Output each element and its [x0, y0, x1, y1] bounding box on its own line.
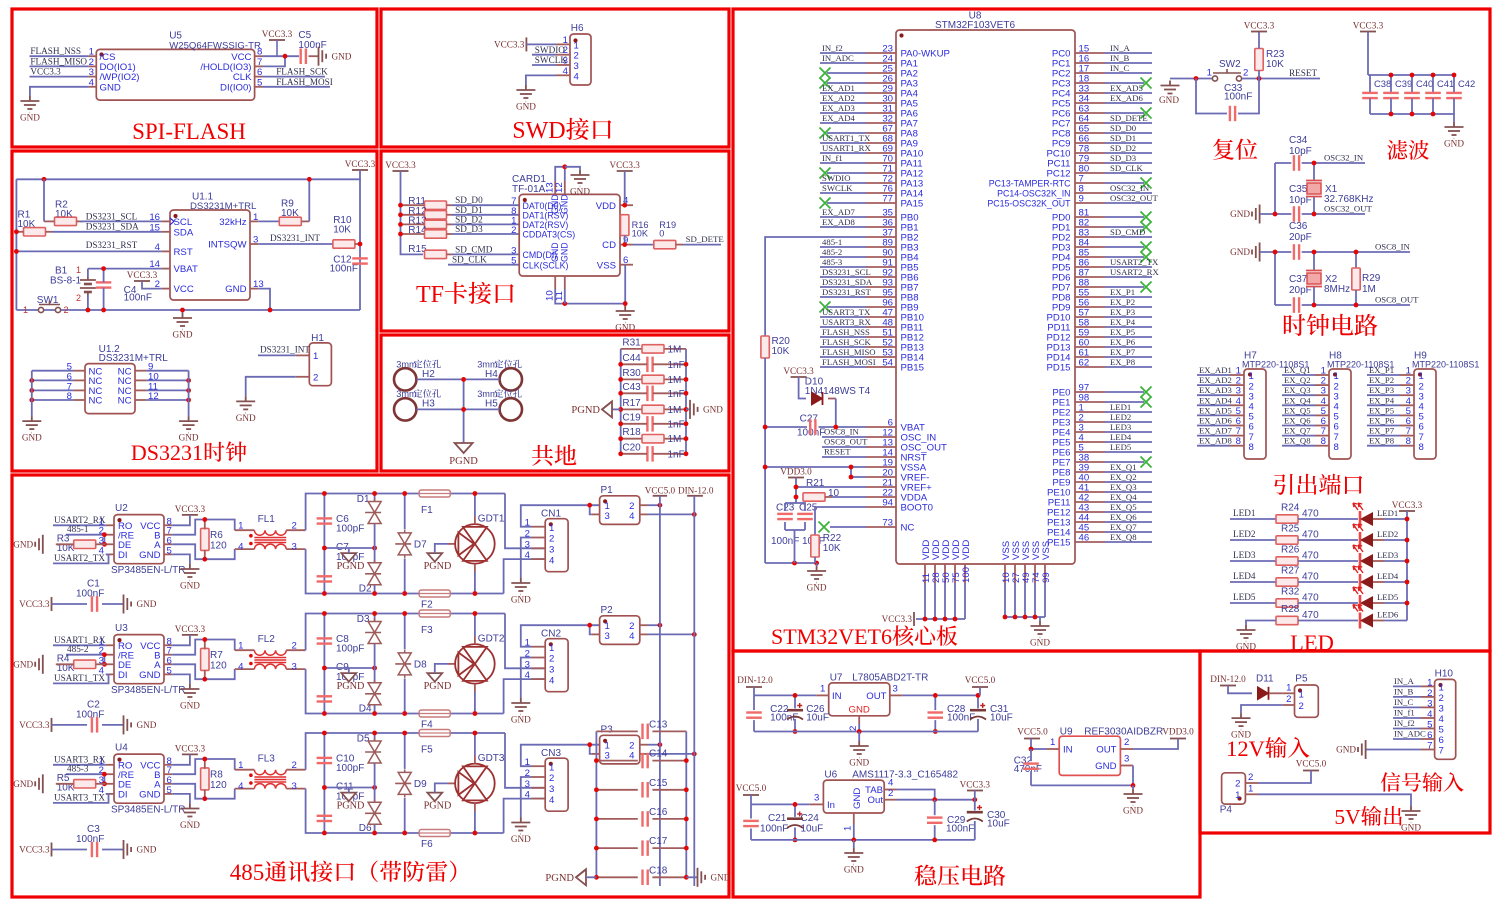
- wire net SWDIO: [820, 182, 866, 184]
- wire nc: [1105, 216, 1144, 218]
- svg-text:DAT2(RSV): DAT2(RSV): [523, 220, 569, 230]
- pin 81 U8 PD0: [1075, 216, 1105, 218]
- svg-text:EX_Q2: EX_Q2: [1110, 472, 1137, 482]
- svg-text:470: 470: [1302, 530, 1319, 541]
- pin 5 H9: [1400, 414, 1414, 416]
- wire LED to rail: [1373, 581, 1384, 583]
- svg-text:100pF: 100pF: [336, 524, 364, 535]
- svg-text:GND: GND: [13, 540, 33, 550]
- svg-text:SDA: SDA: [174, 227, 194, 238]
- pin 2 CN1: [532, 537, 546, 539]
- wire nc: [827, 132, 866, 134]
- wire net SD_D1: [1105, 142, 1152, 144]
- wire nc: [1105, 182, 1144, 184]
- node h join top: [461, 377, 466, 382]
- pin 71 U8 PA12: [866, 172, 896, 174]
- node ladder left C44: [618, 362, 623, 367]
- svg-text:H5: H5: [485, 398, 498, 409]
- pin 6 H7: [1230, 425, 1244, 427]
- svg-text:EX_AD1: EX_AD1: [822, 83, 855, 93]
- wire net IN_f1: [1393, 717, 1421, 719]
- diode D7 TVS mid: [404, 494, 406, 530]
- svg-text:GND: GND: [236, 413, 256, 423]
- pin 7 U4 B: [164, 773, 172, 775]
- svg-text:PGND: PGND: [424, 800, 452, 811]
- wire net EX_P7: [1367, 435, 1400, 437]
- svg-text:CN2: CN2: [541, 629, 561, 640]
- svg-text:GND: GND: [1401, 823, 1421, 833]
- svg-text:GND: GND: [180, 701, 200, 711]
- wire B to FL: [172, 640, 235, 655]
- pin 5 U1.2 NC left: [74, 370, 85, 372]
- svg-text:C13: C13: [649, 719, 668, 730]
- svg-text:RST: RST: [174, 247, 193, 258]
- wire net 485-3: [66, 773, 106, 775]
- node ladder left C19: [618, 421, 623, 426]
- wire 32kHz to R9: [258, 220, 279, 222]
- svg-text:P4: P4: [1220, 805, 1233, 816]
- svg-text:2: 2: [292, 760, 297, 771]
- pin 12 U8 OSC_IN: [866, 436, 896, 438]
- wire U7 input rail: [753, 687, 755, 695]
- svg-text:USART1_RX: USART1_RX: [822, 143, 871, 153]
- svg-text:GND: GND: [173, 330, 193, 340]
- wire net EX_Q3: [1282, 394, 1315, 396]
- pin 12 U1.2 NC right: [135, 399, 146, 401]
- pin 1 U5 /CS: [88, 55, 96, 57]
- pin 8 U5 VCC: [255, 55, 263, 57]
- svg-text:2: 2: [888, 788, 893, 799]
- wire net EX_P2: [1367, 384, 1400, 386]
- pin 3 U8 PE4: [1075, 431, 1105, 433]
- svg-text:PGND: PGND: [571, 405, 600, 416]
- capacitor C8: [323, 614, 325, 669]
- wire net EX_AD5: [1105, 92, 1152, 94]
- svg-text:4: 4: [89, 77, 95, 88]
- svg-text:4: 4: [525, 670, 531, 681]
- pin 3 H8: [1315, 394, 1329, 396]
- wire net IN_ADC: [1393, 738, 1421, 740]
- pin 6 U4 A: [164, 783, 172, 785]
- wire net EX_P8: [1105, 366, 1152, 368]
- svg-text:1nF: 1nF: [668, 449, 685, 460]
- svg-text:5: 5: [1427, 720, 1432, 731]
- svg-text:D8: D8: [414, 660, 427, 671]
- pin 4 U1.1 RST: [162, 250, 170, 252]
- op-amp U3: [114, 635, 164, 684]
- svg-text:1: 1: [238, 760, 243, 771]
- svg-text:C40: C40: [1416, 78, 1433, 89]
- node RST on left vertical: [14, 249, 19, 254]
- svg-text:R30: R30: [622, 368, 641, 379]
- wire U3 pin5 gnd: [172, 674, 190, 684]
- svg-text:C39: C39: [1395, 78, 1412, 89]
- svg-text:100nF: 100nF: [298, 40, 326, 51]
- svg-text:H2: H2: [422, 369, 435, 380]
- wire R to LED: [1298, 581, 1358, 583]
- wire net EX_P5: [1105, 336, 1152, 338]
- svg-text:LED2: LED2: [1110, 412, 1131, 422]
- svg-text:FLASH_NSS: FLASH_NSS: [30, 46, 81, 56]
- svg-text:77: 77: [882, 194, 893, 205]
- wire left vertical: [401, 171, 424, 254]
- pin 6 U8 VBAT: [866, 426, 896, 428]
- pin 64 U8 PC7: [1075, 122, 1105, 124]
- wire Out to VCC3.3: [897, 799, 975, 801]
- pin 2 H8: [1315, 384, 1329, 386]
- svg-text:U6: U6: [824, 770, 837, 781]
- node ladder right R30: [684, 377, 689, 382]
- svg-text:1M: 1M: [668, 344, 682, 355]
- svg-text:DI: DI: [118, 550, 128, 561]
- svg-text:D7: D7: [414, 540, 427, 551]
- svg-text:3: 3: [1427, 698, 1432, 709]
- pin 76 U8 PA14: [866, 192, 896, 194]
- svg-text:2: 2: [292, 640, 297, 651]
- svg-text:12V: 12V: [1226, 736, 1265, 761]
- capacitor C41: [1432, 75, 1434, 93]
- wire net EX_P4: [1105, 326, 1152, 328]
- svg-text:SWDIO: SWDIO: [822, 173, 850, 183]
- wire 485 join: [103, 535, 105, 545]
- svg-text:VDD: VDD: [961, 540, 972, 560]
- svg-text:1: 1: [843, 826, 854, 831]
- pin 3 H6: [556, 64, 570, 66]
- pin 4 H10: [1421, 717, 1435, 719]
- pin 98 U8 PE1: [1075, 401, 1105, 403]
- pin 5 H8: [1315, 414, 1329, 416]
- svg-text:4: 4: [1439, 714, 1445, 725]
- wire net VCC3.3: [30, 76, 89, 78]
- svg-text:R32: R32: [1281, 586, 1300, 597]
- wire U5 pin4 to gnd: [30, 87, 89, 96]
- svg-text:IN_f1: IN_f1: [1394, 708, 1415, 718]
- pin 70 U8 PA11: [866, 162, 896, 164]
- wire net USART2_TX: [53, 554, 109, 563]
- node ladder left R18: [618, 436, 623, 441]
- wire net EX_AD7: [1197, 435, 1230, 437]
- svg-text:1: 1: [1050, 737, 1055, 748]
- pin 54 U8 PB15: [866, 366, 896, 368]
- svg-text:IN_ADC: IN_ADC: [1394, 729, 1426, 739]
- pin 6 H8: [1315, 425, 1329, 427]
- pin 8 H8: [1315, 445, 1329, 447]
- wire CD row: [633, 244, 654, 246]
- ground P4: [1402, 806, 1421, 823]
- svg-text:2: 2: [1235, 779, 1240, 790]
- svg-text:PGND: PGND: [337, 681, 365, 692]
- pin 9 U8 PC15-OSC32K_OUT: [1075, 202, 1105, 204]
- ground LED: [1237, 625, 1256, 642]
- svg-text:54: 54: [882, 358, 893, 369]
- wire P4 pin1 gnd: [1258, 794, 1411, 806]
- pin 2 U9 OUT: [1120, 748, 1133, 750]
- wire net DS3231_INT to H1: [258, 354, 296, 356]
- svg-text:P1: P1: [601, 485, 614, 496]
- pin 33 U8 PC4: [1075, 92, 1105, 94]
- svg-text:EX_P2: EX_P2: [1110, 297, 1135, 307]
- wire net EX_P1: [1367, 374, 1400, 376]
- pin GND U1.1 wire down: [258, 289, 270, 310]
- diode LED1: [1359, 511, 1362, 527]
- svg-text:SD_D1: SD_D1: [1110, 133, 1136, 143]
- svg-text:GND: GND: [20, 113, 40, 123]
- pin 31 U8 PA6: [866, 112, 896, 114]
- wire net FLASH_MISO: [820, 356, 866, 358]
- svg-text:OSC8_IN: OSC8_IN: [824, 427, 859, 437]
- wire net 485-3: [820, 266, 866, 268]
- pin2 P wire to VCC rail: [640, 504, 648, 506]
- pin 6 H10: [1421, 738, 1435, 740]
- wire net USART2_RX: [53, 524, 106, 526]
- svg-text:U7: U7: [830, 672, 843, 683]
- op-amp P5: [1295, 685, 1319, 717]
- op-amp U1.1: [170, 210, 250, 300]
- svg-text:C24: C24: [801, 813, 820, 824]
- svg-text:10pF: 10pF: [1289, 146, 1312, 157]
- svg-text:VCC3.3: VCC3.3: [175, 504, 206, 514]
- svg-text:P5: P5: [1295, 674, 1308, 685]
- svg-text:1: 1: [1235, 790, 1240, 801]
- node ladder left R30: [618, 377, 623, 382]
- svg-text:GND: GND: [703, 405, 723, 415]
- pin 6 U2 A: [164, 543, 172, 545]
- pin 86 U8 PD5: [1075, 266, 1105, 268]
- svg-text:73: 73: [882, 518, 893, 529]
- svg-text:SCL: SCL: [174, 217, 193, 228]
- svg-text:VCC3.3: VCC3.3: [19, 720, 50, 730]
- wire net EX_Q6: [1282, 425, 1315, 427]
- svg-text:SD_CLK: SD_CLK: [452, 255, 487, 265]
- svg-text:1nF: 1nF: [668, 419, 685, 430]
- pin 30 U8 PA5: [866, 102, 896, 104]
- wire net SD_DETE: [1105, 122, 1152, 124]
- svg-text:1: 1: [76, 265, 81, 275]
- node ladder right C20: [684, 451, 689, 456]
- svg-text:3: 3: [525, 779, 530, 790]
- op-amp P1: [600, 496, 640, 525]
- ground H1: [236, 396, 255, 413]
- pin 3 U7 OUT: [890, 694, 903, 696]
- node ladder right R17: [684, 407, 689, 412]
- svg-text:IN_f2: IN_f2: [822, 43, 843, 53]
- svg-text:VCC3.3: VCC3.3: [345, 159, 376, 169]
- pin 3 U9 GND: [1120, 765, 1133, 767]
- svg-text:EX_Q3: EX_Q3: [1110, 482, 1137, 492]
- wire net 485-2: [66, 654, 106, 656]
- svg-text:C21: C21: [768, 813, 787, 824]
- wire LED to rail: [1373, 602, 1384, 604]
- wire nc: [827, 306, 866, 308]
- svg-text:4: 4: [549, 675, 555, 686]
- pin 93 U8 PB7: [866, 286, 896, 288]
- svg-text:470: 470: [1302, 509, 1319, 520]
- wire net SWCLK: [820, 192, 866, 194]
- svg-text:GND: GND: [615, 323, 635, 333]
- svg-text:C37: C37: [1289, 274, 1308, 285]
- pin 97 U8 PE0: [1075, 391, 1105, 393]
- svg-text:3: 3: [1439, 704, 1444, 715]
- svg-text:485-1: 485-1: [67, 524, 89, 534]
- svg-text:3: 3: [1124, 754, 1129, 765]
- svg-text:2: 2: [1124, 737, 1129, 748]
- svg-text:USART3_TX: USART3_TX: [54, 792, 105, 802]
- wire R to LED: [1298, 539, 1358, 541]
- wire net EX_Q6: [1105, 521, 1152, 523]
- svg-text:H6: H6: [571, 23, 584, 34]
- pin 94 U8 BOOT0: [866, 506, 896, 508]
- wire A to FL: [172, 544, 235, 559]
- svg-text:EX_P4: EX_P4: [1110, 317, 1136, 327]
- pin 23 U8 PA0-WKUP: [866, 52, 896, 54]
- svg-text:TF: TF: [416, 282, 444, 308]
- title filter: [1387, 140, 1407, 160]
- op-amp H7: [1244, 369, 1266, 459]
- pin 39 U8 PE8: [1075, 471, 1105, 473]
- pin 4 H9: [1400, 404, 1414, 406]
- svg-text:100nF: 100nF: [946, 824, 974, 835]
- svg-text:OSC32_IN: OSC32_IN: [1110, 183, 1150, 193]
- node h join bottom: [461, 407, 466, 412]
- svg-text:C18: C18: [649, 865, 668, 876]
- node ladder left R17: [618, 407, 623, 412]
- svg-text:C38: C38: [1374, 78, 1391, 89]
- svg-text:DS3231_SCL: DS3231_SCL: [86, 211, 138, 221]
- svg-text:DS3231M+TRL: DS3231M+TRL: [99, 353, 169, 364]
- svg-text:1: 1: [1286, 682, 1291, 693]
- node R7 bottom: [202, 677, 207, 682]
- op-amp P4: [1222, 773, 1246, 804]
- pin 13 U1.1 GND: [250, 288, 258, 290]
- pin 20 U8 VREF-: [866, 476, 896, 478]
- svg-text:VCC5.0: VCC5.0: [965, 675, 996, 685]
- svg-text:5V: 5V: [1334, 805, 1361, 829]
- pin3 P wire: [592, 513, 600, 515]
- svg-text:1nF: 1nF: [668, 389, 685, 400]
- wire R to LED: [1298, 518, 1358, 520]
- svg-text:LED4: LED4: [1377, 571, 1399, 581]
- wire nc: [827, 82, 866, 84]
- wire FL out top: [306, 733, 505, 770]
- svg-text:SD_CMD: SD_CMD: [455, 244, 493, 254]
- ground U2: [180, 564, 199, 581]
- op-amp CN2: [545, 639, 568, 692]
- pin 35 U8 PB0: [866, 216, 896, 218]
- pin 43 U8 PE12: [1075, 511, 1105, 513]
- svg-text:VCC3.3: VCC3.3: [175, 624, 206, 634]
- svg-text:EX_Q1: EX_Q1: [1284, 365, 1311, 375]
- wire net EX_AD2: [820, 102, 866, 104]
- svg-text:FL2: FL2: [258, 634, 276, 645]
- pin 1 P4: [1245, 793, 1258, 795]
- ground GND right: [686, 408, 690, 410]
- svg-text:H4: H4: [485, 369, 498, 380]
- pin 1 CN3: [532, 765, 546, 767]
- section frame power io: [1200, 651, 1490, 833]
- pin 11 U1.2 NC right: [135, 389, 146, 391]
- ground left cluster: [816, 563, 818, 566]
- svg-text:FLASH_SCK: FLASH_SCK: [276, 67, 328, 77]
- svg-text:EX_AD8: EX_AD8: [822, 217, 855, 227]
- pin4 P wire to DIN rail: [640, 513, 648, 515]
- svg-text:D5: D5: [357, 734, 370, 745]
- svg-text:1: 1: [1207, 68, 1212, 79]
- wire nc: [827, 172, 866, 174]
- svg-text:GND: GND: [100, 82, 121, 93]
- pin 10 U1.2 NC right: [135, 379, 146, 381]
- svg-text:4: 4: [238, 662, 244, 673]
- svg-text:SW2: SW2: [1219, 59, 1241, 70]
- svg-text:99: 99: [1041, 572, 1052, 583]
- pin 41 U8 PE10: [1075, 491, 1105, 493]
- svg-text:4: 4: [629, 511, 635, 522]
- svg-text:2: 2: [549, 654, 554, 665]
- wire net LED5: [1230, 602, 1276, 604]
- fuse F5: [419, 730, 450, 737]
- svg-text:OUT: OUT: [1096, 745, 1116, 756]
- svg-text:VDD: VDD: [596, 201, 616, 212]
- wire U7 output: [902, 694, 980, 696]
- pin 48 U8 PB11: [866, 326, 896, 328]
- wire net USART1_TX: [820, 142, 866, 144]
- wire net EX_P3: [1367, 394, 1400, 396]
- svg-text:EX_P4: EX_P4: [1369, 395, 1395, 405]
- svg-text:EX_Q6: EX_Q6: [1284, 416, 1311, 426]
- pin 5 U2 GND: [164, 553, 172, 555]
- svg-text:GND: GND: [139, 670, 160, 681]
- svg-text:GND: GND: [570, 187, 590, 197]
- ground: [20, 96, 39, 113]
- svg-text:4: 4: [525, 550, 531, 561]
- svg-text:470: 470: [1302, 610, 1319, 621]
- wire NC right: [146, 399, 188, 401]
- svg-text:SD_CLK: SD_CLK: [1110, 163, 1144, 173]
- node GND wire: [268, 308, 273, 313]
- svg-text:VCC3.3: VCC3.3: [385, 160, 416, 170]
- svg-text:4: 4: [629, 631, 635, 642]
- svg-text:GND: GND: [560, 194, 570, 214]
- ground U9: [1132, 785, 1134, 789]
- svg-text:SD_D0: SD_D0: [455, 195, 483, 205]
- svg-text:3: 3: [893, 683, 898, 694]
- capacitor C18: [596, 876, 637, 878]
- node C4 bottom: [101, 308, 106, 313]
- wire net 485-2: [820, 256, 866, 258]
- svg-text:VDD3.0: VDD3.0: [1162, 727, 1194, 737]
- svg-text:CD: CD: [602, 240, 616, 251]
- svg-text:BOOT0: BOOT0: [901, 503, 934, 514]
- pin 3 U4 DE: [106, 783, 114, 785]
- svg-text:3: 3: [292, 781, 297, 792]
- pin 2 H10: [1421, 696, 1435, 698]
- wire net EX_P6: [1105, 346, 1152, 348]
- wire U9 gnd: [1132, 766, 1134, 786]
- svg-text:3: 3: [605, 511, 610, 522]
- capacitor C9: [323, 668, 325, 714]
- svg-text:10uF: 10uF: [990, 713, 1013, 724]
- svg-text:3: 3: [525, 659, 530, 670]
- wire 485 join: [103, 774, 105, 784]
- pin 10 11 CARD1 GND bottom: [554, 276, 556, 289]
- ground U3: [180, 684, 199, 701]
- svg-text:GND: GND: [1231, 730, 1251, 740]
- diode D8 TVS mid: [404, 614, 406, 650]
- svg-text:In: In: [827, 800, 835, 811]
- pin 89 U8 PB3: [866, 246, 896, 248]
- wire net DS3231_SDA: [820, 286, 866, 288]
- wire net SD_D0: [1105, 132, 1152, 134]
- svg-text:GND: GND: [1123, 806, 1143, 816]
